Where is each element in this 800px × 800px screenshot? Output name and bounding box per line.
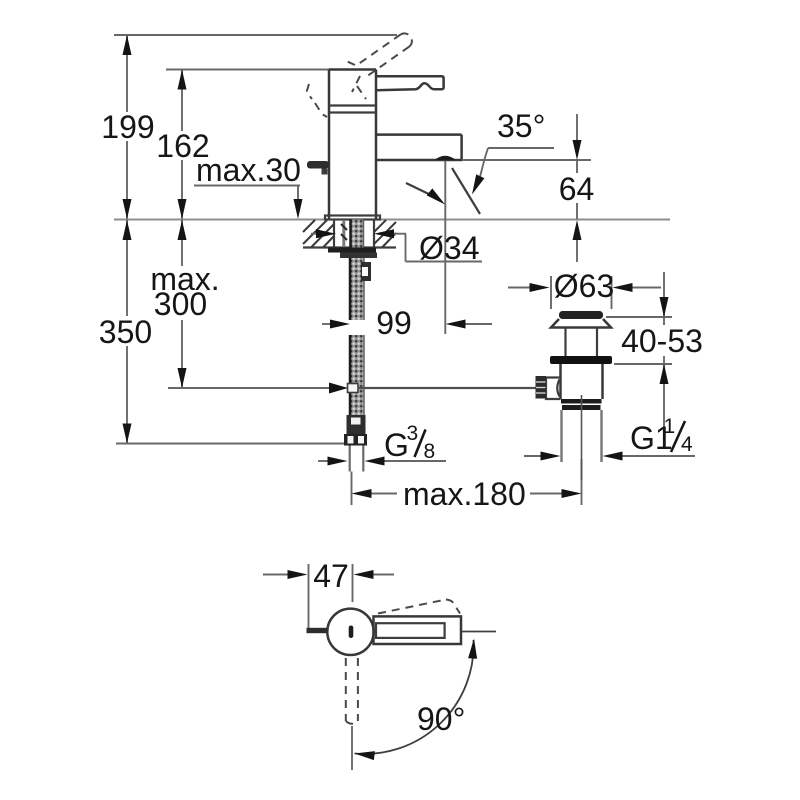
svg-text:99: 99 [376, 305, 412, 341]
svg-text:90°: 90° [417, 701, 465, 737]
svg-text:G: G [384, 427, 409, 463]
svg-text:4: 4 [681, 433, 693, 456]
svg-text:47: 47 [313, 558, 349, 594]
svg-text:350: 350 [99, 314, 152, 350]
svg-text:max.30: max.30 [196, 152, 301, 188]
svg-text:1: 1 [664, 415, 676, 438]
svg-text:300: 300 [154, 286, 207, 322]
svg-text:Ø63: Ø63 [554, 268, 614, 304]
svg-text:199: 199 [101, 109, 154, 145]
svg-text:max.180: max.180 [403, 476, 526, 512]
svg-text:Ø34: Ø34 [419, 230, 479, 266]
svg-text:35°: 35° [497, 108, 545, 144]
svg-text:64: 64 [559, 171, 595, 207]
svg-text:3: 3 [407, 422, 419, 445]
svg-text:8: 8 [424, 440, 436, 463]
svg-text:40-53: 40-53 [621, 323, 703, 359]
